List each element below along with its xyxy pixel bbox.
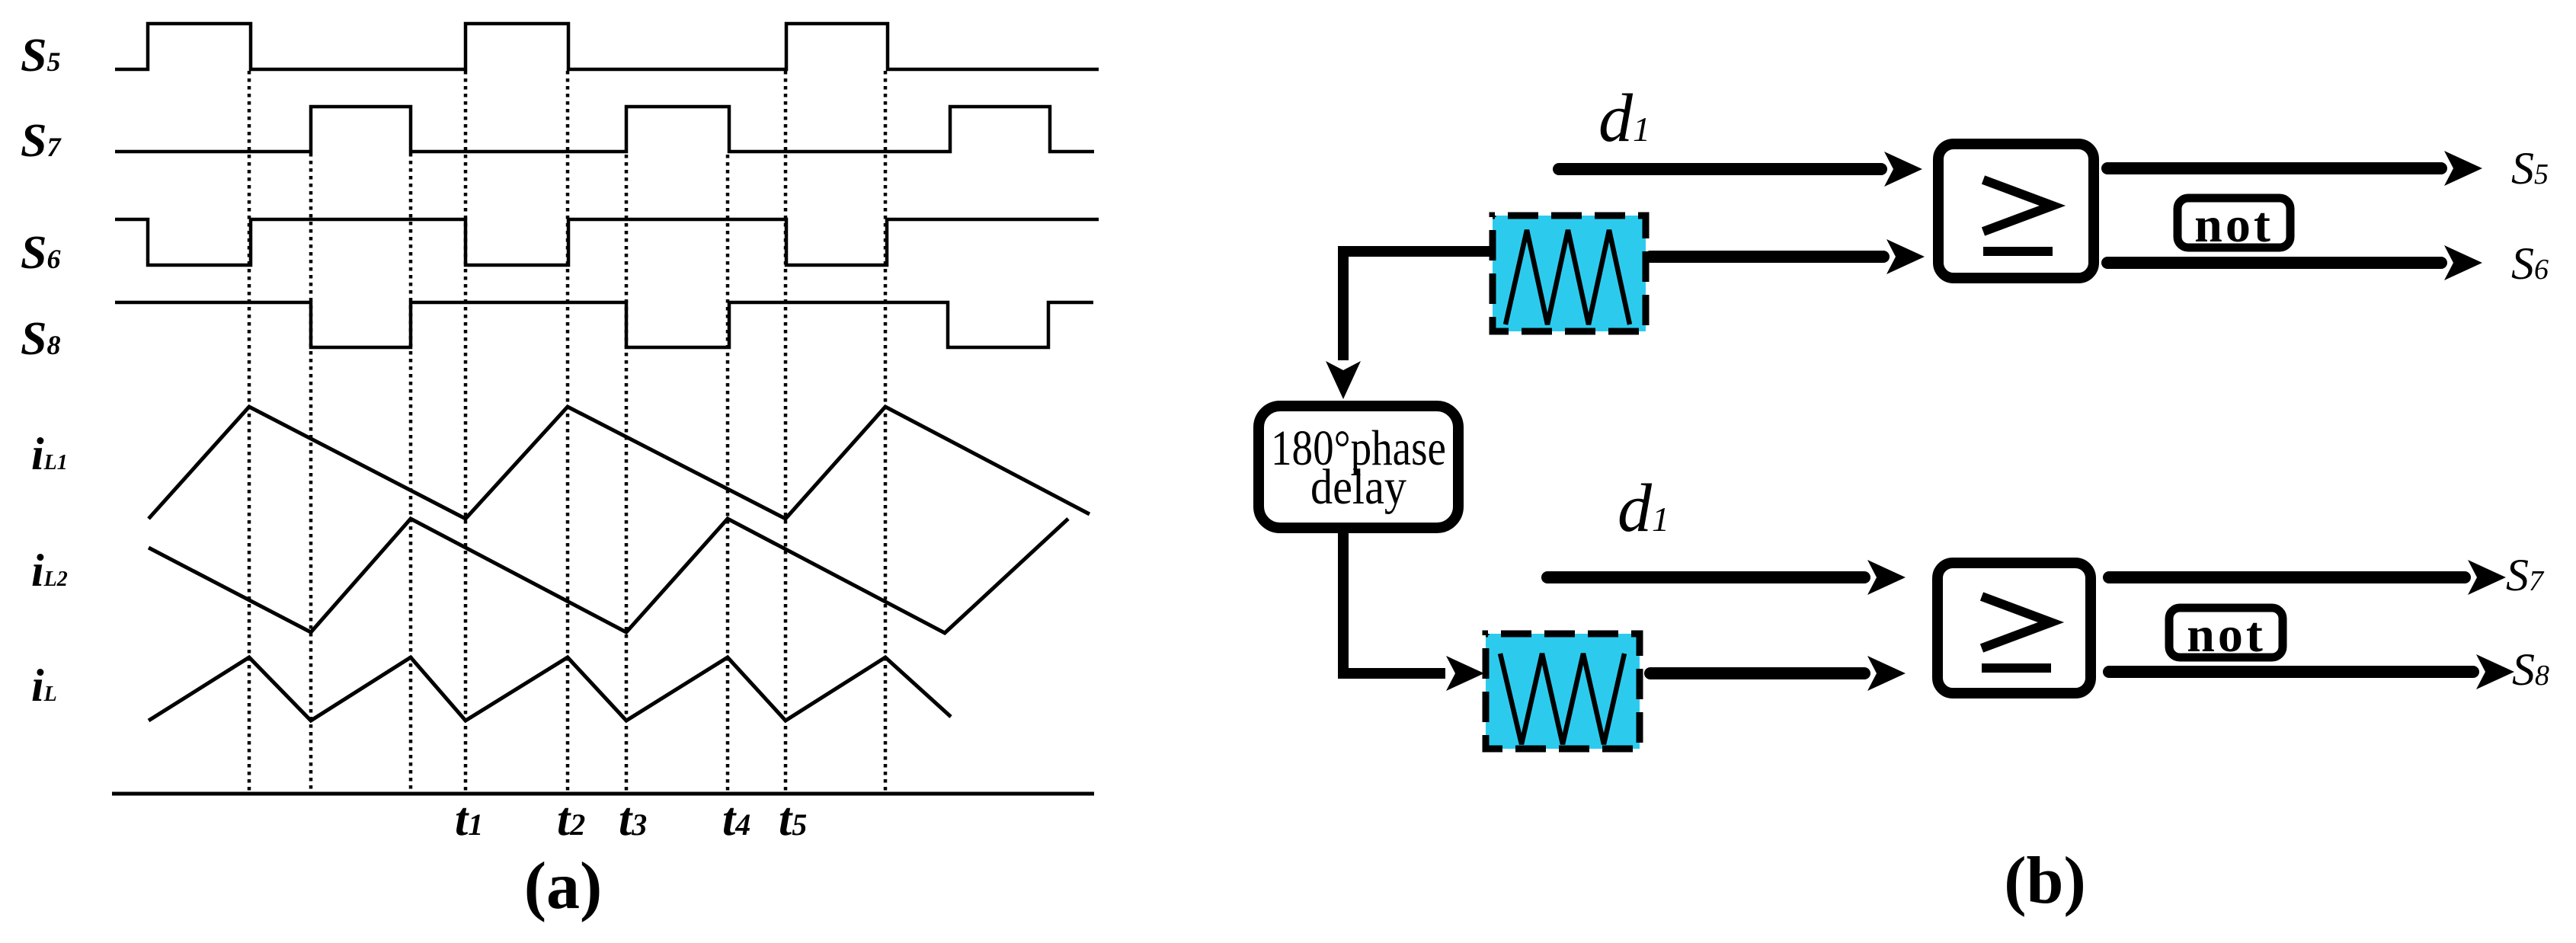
svg-text:(b): (b) [2004, 844, 2086, 918]
svg-text:delay: delay [1310, 459, 1406, 515]
svg-text:not: not [2194, 197, 2274, 253]
svg-text:(a): (a) [524, 849, 603, 923]
svg-text:not: not [2187, 607, 2266, 663]
